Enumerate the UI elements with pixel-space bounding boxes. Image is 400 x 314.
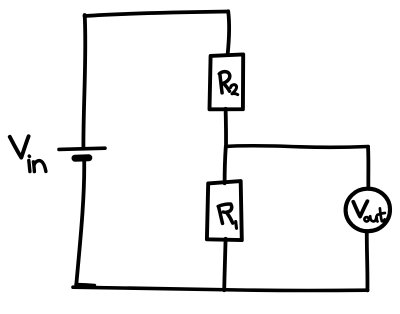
label Vin subscript n — [33, 161, 46, 172]
resistor R2 body — [210, 54, 244, 109]
wire left vertical lower (battery - to bottom corner) — [76, 161, 84, 285]
label Vin subscript i — [29, 156, 30, 172]
label Vout subscript o — [364, 217, 368, 221]
voltmeter Vout circle — [346, 189, 390, 232]
label Vin letter V — [10, 136, 29, 157]
wire left vertical upper (top corner to battery +) — [83, 15, 85, 149]
label R1 letter R — [218, 204, 233, 223]
node junction to R1 top wire — [225, 147, 226, 184]
wire top horizontal (Vin top to R2 top) — [85, 12, 229, 17]
label Vout letter V — [353, 201, 367, 216]
wire mid horizontal (node to Vout) — [226, 146, 368, 148]
resistor R1 body — [207, 181, 242, 240]
wire right vertical lower (Vout to bottom) — [365, 232, 370, 290]
wire R1 bottom vertical — [224, 239, 225, 290]
label R1 subscript 1 — [234, 222, 238, 229]
label R2 subscript 2 — [231, 85, 238, 95]
wire bottom horizontal (ground return) — [73, 287, 368, 290]
battery V1 top plate (long) — [59, 148, 105, 149]
battery V1 bottom plate (short thick) — [75, 154, 89, 161]
wire R2 top vertical — [228, 11, 230, 55]
label Vout subscript t — [377, 208, 385, 221]
wire R2 bottom to node — [224, 109, 228, 147]
label Vout subscript u — [370, 216, 377, 221]
wire right vertical upper (to Vout meter) — [366, 147, 370, 189]
label R2 letter R — [219, 72, 229, 93]
wire bottom corner stub — [76, 284, 95, 285]
